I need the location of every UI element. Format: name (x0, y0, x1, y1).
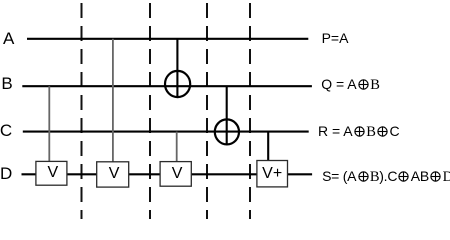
gate V3 label (162, 166, 193, 182)
gate V1 label (37, 165, 68, 181)
dashed partition line 4 (249, 0, 251, 219)
output label S = (A xor B).C xor AB xor D (322, 169, 450, 184)
input label B (1, 75, 12, 92)
control wire A to gate V2 (112, 39, 114, 163)
input label D (0, 165, 12, 182)
dashed partition line 2 (149, 0, 151, 219)
control wire C to gate V4 (267, 132, 269, 161)
control wire A to CNOT target on B (176, 39, 178, 97)
gate V2 box (97, 162, 129, 187)
control wire C to gate V3 (176, 132, 178, 162)
gate V4 label (257, 166, 288, 182)
control wire B to CNOT target on C (226, 86, 228, 144)
dashed partition line 1 (81, 0, 83, 219)
output label P=A (322, 31, 349, 45)
wire C (23, 131, 309, 133)
gate V3 box (160, 162, 191, 187)
gate V1 box (36, 161, 67, 185)
gate V2 label (98, 166, 130, 182)
CNOT target circle on C (215, 119, 239, 144)
dashed partition line 3 (206, 0, 208, 219)
CNOT target circle on B (165, 71, 190, 97)
input label A (3, 30, 14, 47)
wire D (22, 173, 313, 175)
output label Q = A xor B (321, 77, 380, 92)
gate V4 box (257, 161, 288, 187)
control wire B to gate V1 (48, 86, 50, 162)
wire B (22, 85, 312, 87)
output label R = A xor B xor C (318, 124, 400, 139)
input label C (0, 122, 12, 139)
wire A (27, 38, 308, 40)
